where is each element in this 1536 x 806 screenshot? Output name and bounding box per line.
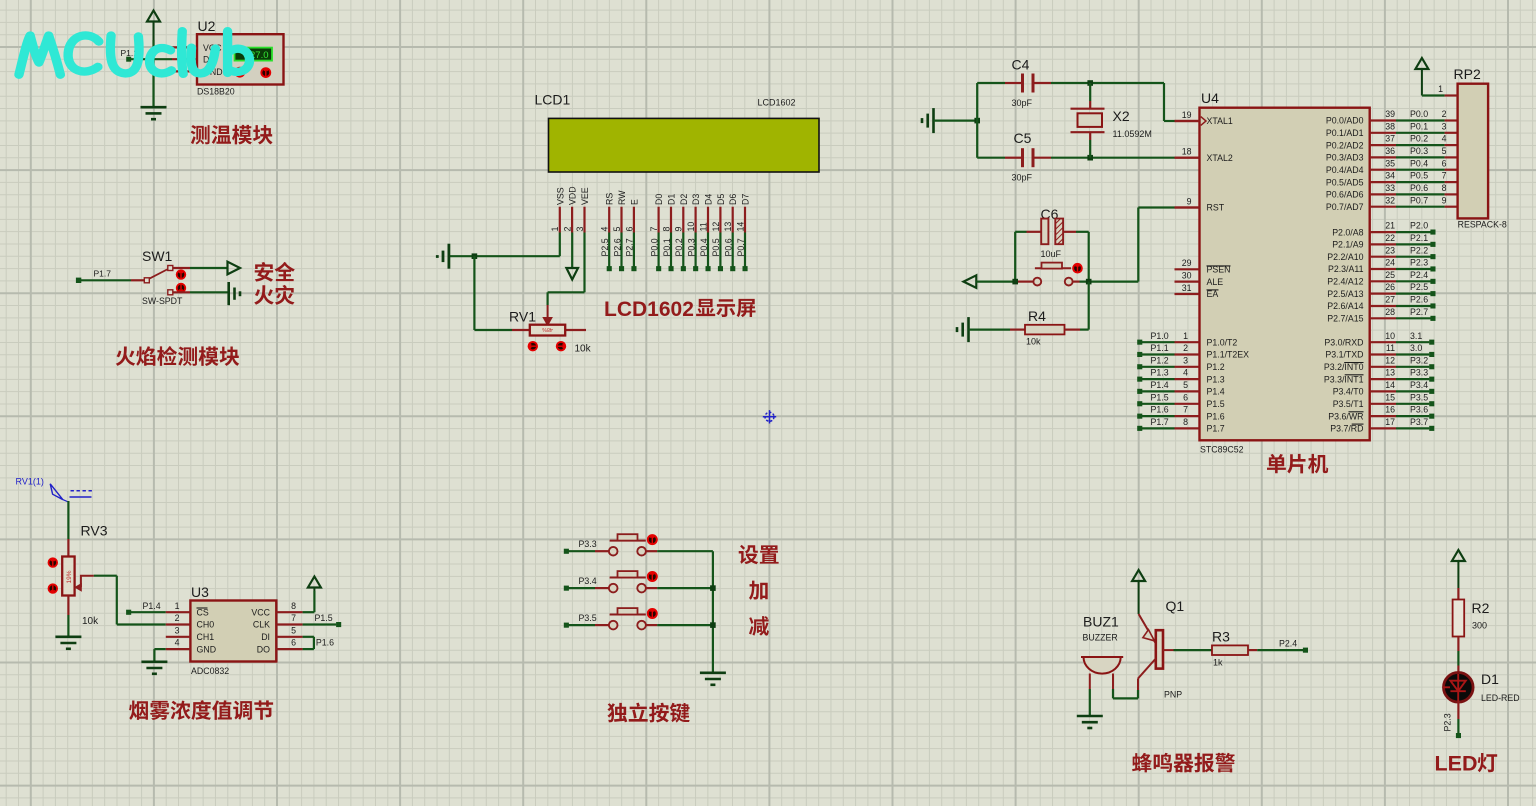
wire R4 to reset row — [1088, 282, 1090, 330]
MCUclub logo — [19, 31, 250, 74]
svg-text:ALE: ALE — [1207, 277, 1224, 287]
svg-text:RS: RS — [605, 193, 615, 205]
svg-text:P2.5: P2.5 — [1410, 282, 1428, 292]
svg-text:D4: D4 — [704, 194, 714, 205]
svg-text:P1.2: P1.2 — [1151, 355, 1169, 365]
svg-text:P0.6/AD6: P0.6/AD6 — [1326, 190, 1364, 200]
svg-text:RST: RST — [1207, 203, 1225, 213]
svg-text:P1.4: P1.4 — [1207, 387, 1225, 397]
U4 pin 2 P1.1 — [1137, 343, 1249, 360]
svg-text:21: 21 — [1385, 221, 1395, 231]
svg-text:RV1(1): RV1(1) — [16, 477, 44, 487]
svg-text:31: 31 — [1182, 283, 1192, 293]
U4 pin 3 P1.2 — [1137, 355, 1225, 372]
svg-text:2: 2 — [563, 227, 573, 232]
LCD pin 12 D5 — [711, 194, 726, 272]
svg-text:DO: DO — [257, 644, 270, 654]
svg-text:3: 3 — [1442, 121, 1447, 131]
svg-text:4: 4 — [600, 227, 610, 232]
svg-text:25: 25 — [1385, 270, 1395, 280]
svg-text:23: 23 — [1385, 245, 1395, 255]
svg-text:29: 29 — [1182, 258, 1192, 268]
junction C6-right/reset — [1086, 279, 1092, 285]
label 加 — [749, 581, 768, 600]
potentiometer RV1 10k — [509, 305, 592, 355]
svg-text:ADC0832: ADC0832 — [191, 666, 229, 676]
U4 pin 19 XTAL1 — [1175, 110, 1233, 126]
svg-text:P3.6: P3.6 — [1410, 405, 1428, 415]
svg-text:RESPACK-8: RESPACK-8 — [1458, 220, 1507, 230]
svg-text:P1.4: P1.4 — [1151, 380, 1169, 390]
svg-text:D5: D5 — [716, 194, 726, 205]
svg-text:P3.3/INT1: P3.3/INT1 — [1324, 374, 1364, 384]
svg-text:9: 9 — [674, 227, 684, 232]
svg-text:P2.5/A13: P2.5/A13 — [1327, 289, 1363, 299]
power symbol (RP2 pin1) — [1415, 58, 1428, 96]
capacitor C4 30pF — [977, 57, 1164, 109]
LCD pin 2 VDD — [563, 186, 578, 232]
U4 pin 29 PSEN — [1175, 258, 1231, 274]
svg-text:30pF: 30pF — [1012, 98, 1033, 108]
LCD pin 3 VEE — [575, 187, 590, 232]
wire keys common vertical — [712, 551, 714, 672]
svg-text:2: 2 — [1442, 109, 1447, 119]
svg-text:18: 18 — [1182, 147, 1192, 157]
svg-text:XTAL2: XTAL2 — [1207, 153, 1233, 163]
svg-text:D3: D3 — [691, 194, 701, 205]
svg-text:VEE: VEE — [580, 187, 590, 205]
svg-text:PNP: PNP — [1164, 690, 1182, 700]
svg-text:D0: D0 — [654, 194, 664, 205]
svg-text:P2.3/A11: P2.3/A11 — [1328, 264, 1364, 274]
label 设置 — [739, 545, 779, 564]
crystal X2 11.0592M — [1071, 83, 1152, 158]
svg-text:P0.5: P0.5 — [711, 238, 721, 256]
svg-text:P3.2/INT0: P3.2/INT0 — [1324, 362, 1364, 372]
svg-text:P0.7: P0.7 — [736, 238, 746, 256]
push button reset — [1033, 263, 1082, 286]
svg-text:R2: R2 — [1472, 600, 1490, 616]
svg-text:P3.7: P3.7 — [1410, 417, 1428, 427]
wire VEE to RV1 wiper — [548, 233, 585, 306]
svg-text:P1.6: P1.6 — [316, 638, 334, 648]
svg-text:6: 6 — [1183, 392, 1188, 402]
svg-text:D2: D2 — [679, 194, 689, 205]
svg-text:E: E — [629, 199, 639, 205]
ground right (火灾) — [229, 282, 240, 305]
svg-text:16: 16 — [1385, 405, 1395, 415]
svg-text:LCD1: LCD1 — [535, 92, 571, 108]
wire P3.5 to button — [566, 624, 608, 626]
svg-text:CH1: CH1 — [197, 632, 215, 642]
svg-text:3: 3 — [1183, 355, 1188, 365]
svg-text:C5: C5 — [1014, 130, 1032, 146]
svg-text:8: 8 — [1183, 417, 1188, 427]
U4 pin 39 P0.0 wire to RP2 pin 2 — [1326, 109, 1458, 126]
LCD pin 7 D0 — [649, 194, 664, 272]
svg-text:12: 12 — [711, 222, 721, 232]
svg-text:P0.3/AD3: P0.3/AD3 — [1326, 153, 1364, 163]
U4 pin 1 P1.0 — [1137, 331, 1237, 348]
svg-text:P2.6: P2.6 — [1410, 295, 1428, 305]
svg-text:P0.2/AD2: P0.2/AD2 — [1326, 140, 1364, 150]
U4 pin 13 P3.3 — [1324, 368, 1434, 385]
power symbol VCC (temp module) — [147, 11, 160, 48]
U4 pin 33 P0.6 wire to RP2 pin 8 — [1326, 183, 1458, 200]
svg-text:1: 1 — [550, 227, 560, 232]
svg-text:X2: X2 — [1113, 108, 1130, 124]
LCD pin 9 D2 — [674, 194, 689, 272]
sensor U2 DS18B20 — [197, 18, 284, 97]
svg-text:8: 8 — [1442, 183, 1447, 193]
power arrow down (VDD) — [566, 268, 578, 280]
U4 pin 32 P0.7 wire to RP2 pin 9 — [1326, 195, 1458, 212]
svg-text:10k: 10k — [82, 616, 99, 627]
svg-text:P3.5: P3.5 — [579, 613, 597, 623]
ground (buzzer) — [1077, 716, 1103, 728]
svg-text:9: 9 — [1187, 196, 1192, 206]
svg-text:RW: RW — [617, 190, 627, 205]
svg-text:P3.4/T0: P3.4/T0 — [1333, 387, 1364, 397]
svg-text:P2.1: P2.1 — [1410, 233, 1428, 243]
node P1.7 — [76, 268, 111, 283]
LCD pin 14 D7 — [735, 194, 750, 272]
svg-text:P2.4: P2.4 — [1279, 639, 1297, 649]
svg-text:P0.0/AD0: P0.0/AD0 — [1326, 116, 1364, 126]
svg-text:37: 37 — [1385, 134, 1395, 144]
svg-text:3: 3 — [175, 625, 180, 635]
U4 pin 25 P2.4 — [1327, 270, 1435, 287]
U4 pin 27 P2.6 — [1327, 295, 1435, 312]
svg-text:15: 15 — [1385, 392, 1395, 402]
label temp module — [191, 125, 273, 145]
svg-text:P1.5: P1.5 — [1151, 392, 1169, 402]
svg-text:19: 19 — [1182, 110, 1192, 120]
svg-text:P2.6: P2.6 — [612, 238, 622, 256]
svg-text:1: 1 — [1183, 331, 1188, 341]
LCD pin 13 D6 — [723, 194, 738, 272]
svg-text:LED: LED — [1435, 752, 1478, 776]
ground (temp module) — [141, 107, 167, 119]
svg-text:P0.4/AD4: P0.4/AD4 — [1326, 165, 1364, 175]
U4 pin 36 P0.3 wire to RP2 pin 5 — [1326, 146, 1458, 163]
U4 pin 31 EA — [1175, 283, 1219, 299]
svg-text:VCC: VCC — [251, 607, 270, 617]
svg-text:RV3: RV3 — [81, 523, 108, 539]
display LCD1 LCD1602 — [535, 92, 820, 173]
U4 pin 28 P2.7 — [1327, 307, 1435, 324]
svg-text:24: 24 — [1385, 258, 1395, 268]
svg-text:P1.7: P1.7 — [1207, 424, 1225, 434]
XTAL1 clock marker — [1201, 117, 1206, 126]
wire RV3 bottom to ground — [67, 596, 69, 637]
svg-text:P3.3: P3.3 — [579, 539, 597, 549]
svg-text:10: 10 — [1385, 331, 1395, 341]
svg-text:10uF: 10uF — [1041, 249, 1062, 259]
svg-text:1: 1 — [1438, 84, 1443, 94]
svg-text:RP2: RP2 — [1454, 66, 1481, 82]
wire RV3 wiper to U3 CH0 — [94, 576, 191, 625]
LCD pin 10 D3 — [686, 194, 701, 272]
resistor R3 1k — [1212, 629, 1257, 668]
svg-text:P0.7/AD7: P0.7/AD7 — [1326, 202, 1364, 212]
svg-text:P0.5/AD5: P0.5/AD5 — [1326, 177, 1364, 187]
U4 pin 22 P2.1 — [1332, 233, 1435, 250]
U3 pin 4 GND to ground — [154, 638, 216, 662]
svg-text:4: 4 — [1442, 134, 1447, 144]
LCD pin 8 D1 — [661, 194, 676, 272]
svg-text:10k: 10k — [575, 344, 592, 355]
svg-text:CH0: CH0 — [197, 620, 215, 630]
LED D1 LED-RED — [1443, 671, 1519, 703]
svg-text:P3.4: P3.4 — [579, 576, 597, 586]
svg-text:300: 300 — [1472, 621, 1487, 631]
svg-text:6: 6 — [291, 638, 296, 648]
svg-text:P2.3: P2.3 — [1410, 258, 1428, 268]
svg-text:2: 2 — [1183, 343, 1188, 353]
svg-text:P2.2/A10: P2.2/A10 — [1327, 252, 1363, 262]
junction keys P3.4 — [710, 585, 716, 591]
svg-text:13: 13 — [1385, 368, 1395, 378]
svg-text:P0.1: P0.1 — [662, 238, 672, 256]
resistor R2 300 — [1453, 600, 1490, 637]
svg-text:BUZ1: BUZ1 — [1083, 614, 1119, 630]
svg-text:11.0592M: 11.0592M — [1113, 129, 1152, 139]
power symbol (LED) — [1452, 550, 1465, 588]
svg-text:12: 12 — [1385, 355, 1395, 365]
ground (crystal) — [922, 108, 977, 133]
svg-text:P0.6: P0.6 — [1410, 183, 1428, 193]
svg-text:XTAL1: XTAL1 — [1207, 116, 1233, 126]
node P2.4 — [1279, 639, 1308, 653]
svg-text:33: 33 — [1385, 183, 1395, 193]
svg-text:P3.4: P3.4 — [1410, 380, 1428, 390]
svg-text:3.1: 3.1 — [1410, 331, 1422, 341]
label flame module — [116, 346, 239, 366]
svg-text:19%: 19% — [66, 570, 73, 583]
svg-text:P0.7: P0.7 — [1410, 195, 1428, 205]
svg-text:CLK: CLK — [253, 620, 270, 630]
LCD pin 5 RW — [612, 190, 627, 271]
svg-text:5: 5 — [291, 625, 296, 635]
svg-text:D6: D6 — [728, 194, 738, 205]
svg-text:P0.4: P0.4 — [1410, 158, 1428, 168]
label LED — [1435, 752, 1478, 776]
svg-text:48%: 48% — [542, 326, 553, 332]
svg-text:7: 7 — [649, 227, 659, 232]
power arrow right (安全) — [228, 262, 241, 275]
svg-text:P0.2: P0.2 — [1410, 134, 1428, 144]
U4 pin 37 P0.2 wire to RP2 pin 4 — [1326, 134, 1458, 151]
wire left rail C4-C5 — [976, 83, 978, 158]
label 火灾 — [254, 285, 294, 305]
svg-text:P2.4/A12: P2.4/A12 — [1327, 277, 1363, 287]
svg-text:P1.1: P1.1 — [1151, 343, 1169, 353]
svg-text:P0.6: P0.6 — [724, 238, 734, 256]
wire R2 to D1 — [1457, 637, 1459, 672]
svg-text:U3: U3 — [191, 584, 209, 600]
wire SW1 throw2 to ground — [173, 291, 228, 293]
svg-text:3: 3 — [575, 227, 585, 232]
svg-text:R3: R3 — [1212, 629, 1230, 645]
svg-text:38: 38 — [1385, 121, 1395, 131]
svg-text:8: 8 — [661, 227, 671, 232]
wire button P3.5 to common — [646, 624, 713, 626]
capacitor C6 10uF — [1015, 206, 1088, 259]
svg-text:35: 35 — [1385, 158, 1395, 168]
U3 pin 7 CLK to P1.5 — [253, 613, 341, 630]
wire RV1(1) to RV3 — [67, 501, 69, 557]
U4 pin 38 P0.1 wire to RP2 pin 3 — [1326, 121, 1458, 138]
U4 pin 21 P2.0 — [1332, 221, 1435, 238]
svg-text:7: 7 — [1183, 405, 1188, 415]
svg-text:DI: DI — [261, 632, 270, 642]
U3 pin 6 DO joined to DI -> P1.6 — [257, 637, 334, 655]
svg-text:22: 22 — [1385, 233, 1395, 243]
svg-text:39: 39 — [1385, 109, 1395, 119]
junction C5/X2 — [1087, 155, 1093, 161]
svg-text:4: 4 — [175, 638, 180, 648]
svg-text:7: 7 — [1442, 171, 1447, 181]
svg-text:P3.5/T1: P3.5/T1 — [1333, 399, 1364, 409]
wire buzzer to collector — [1113, 689, 1138, 698]
svg-text:P2.0/A8: P2.0/A8 — [1332, 227, 1363, 237]
U4 pin 7 P1.6 — [1137, 405, 1225, 422]
svg-text:P2.6/A14: P2.6/A14 — [1327, 301, 1363, 311]
junction keys P3.5 — [710, 622, 716, 628]
svg-text:28: 28 — [1385, 307, 1395, 317]
svg-text:P0.3: P0.3 — [1410, 146, 1428, 156]
svg-text:P1.6: P1.6 — [1207, 411, 1225, 421]
wire RP2 pin 1 — [1422, 84, 1458, 96]
svg-text:LCD1602: LCD1602 — [758, 98, 796, 108]
svg-text:P2.5: P2.5 — [600, 238, 610, 256]
svg-text:10: 10 — [686, 222, 696, 232]
U4 pin 5 P1.4 — [1137, 380, 1225, 397]
svg-text:D7: D7 — [741, 194, 751, 205]
svg-text:P2.3: P2.3 — [1443, 713, 1453, 731]
svg-text:1: 1 — [175, 601, 180, 611]
U4 pin 34 P0.5 wire to RP2 pin 7 — [1326, 171, 1458, 188]
svg-text:30pF: 30pF — [1012, 173, 1033, 183]
svg-text:LED-RED: LED-RED — [1481, 693, 1520, 703]
U3 pin 2 CH0 — [175, 613, 215, 630]
svg-text:P1.7: P1.7 — [1151, 417, 1169, 427]
svg-text:P2.1/A9: P2.1/A9 — [1332, 240, 1363, 250]
svg-text:P2.7/A15: P2.7/A15 — [1327, 314, 1363, 324]
svg-text:RV1: RV1 — [509, 309, 536, 325]
wire reset row right to RST — [1073, 208, 1200, 282]
ADC U3 ADC0832 body — [190, 584, 276, 676]
junction C4/X2 — [1087, 80, 1093, 86]
wire C6 right down to reset row — [1088, 232, 1090, 282]
svg-text:P0.0: P0.0 — [649, 238, 659, 256]
ground (U3) — [141, 662, 167, 674]
label LCD1602 display — [604, 298, 694, 321]
wire R3 to P2.4 — [1257, 649, 1303, 651]
ground (R4) — [957, 317, 1010, 342]
svg-text:30: 30 — [1182, 270, 1192, 280]
svg-text:P2.0: P2.0 — [1410, 221, 1428, 231]
svg-text:P3.0/RXD: P3.0/RXD — [1324, 337, 1363, 347]
U4 pin 11 P3.1 — [1325, 343, 1434, 360]
svg-text:P0.5: P0.5 — [1410, 171, 1428, 181]
svg-text:5: 5 — [1442, 146, 1447, 156]
node P3.5 — [564, 613, 597, 628]
MCU U4 STC89C52 body — [1200, 90, 1370, 455]
svg-text:5: 5 — [1183, 380, 1188, 390]
LCD pin 1 VSS — [550, 187, 565, 232]
svg-text:STC89C52: STC89C52 — [1200, 445, 1244, 455]
switch SW1 SPDT — [142, 266, 186, 306]
ground (LCD VSS) — [437, 244, 449, 269]
origin marker — [763, 410, 776, 423]
svg-text:9: 9 — [1442, 195, 1447, 205]
svg-text:VDD: VDD — [568, 186, 578, 205]
power symbol (buzzer) — [1132, 570, 1145, 614]
svg-text:32: 32 — [1385, 195, 1395, 205]
potentiometer RV3 10k — [48, 523, 108, 628]
U4 pin 24 P2.3 — [1328, 258, 1436, 275]
label MCU — [1267, 454, 1328, 474]
svg-text:P2.7: P2.7 — [625, 238, 635, 256]
svg-text:BUZZER: BUZZER — [1083, 633, 1118, 643]
svg-text:D1: D1 — [1481, 671, 1499, 687]
LCD pin 6 E — [624, 199, 639, 271]
svg-text:11: 11 — [698, 222, 708, 231]
label smoke module — [129, 700, 273, 720]
U3 pin 8 VCC to power — [251, 591, 314, 617]
svg-text:P3.1/TXD: P3.1/TXD — [1325, 350, 1363, 360]
svg-text:3.0: 3.0 — [1410, 343, 1422, 353]
wire button P3.3 to common — [646, 550, 713, 552]
svg-text:P0.0: P0.0 — [1410, 109, 1428, 119]
svg-text:P3.2: P3.2 — [1410, 355, 1428, 365]
wire DQ from P1.1 to U2 — [129, 58, 197, 60]
U4 pin 18 XTAL2 — [1175, 147, 1233, 163]
wire base to R3 — [1174, 649, 1213, 651]
svg-text:6: 6 — [624, 227, 634, 232]
push button P3.3 — [609, 534, 658, 555]
svg-text:P2.4: P2.4 — [1410, 270, 1428, 280]
wire SW1 throw1 to power — [173, 267, 227, 269]
wire GND stub — [154, 70, 198, 72]
svg-text:VSS: VSS — [555, 187, 565, 205]
svg-text:13: 13 — [723, 222, 733, 232]
label 安全 — [255, 262, 295, 282]
svg-text:P0.1: P0.1 — [1410, 121, 1428, 131]
LCD pin 4 RS — [600, 193, 615, 272]
wire power to R2 — [1457, 588, 1459, 600]
svg-text:EA: EA — [1207, 289, 1219, 299]
buzzer BUZ1 — [1081, 614, 1123, 690]
wire reset row left — [976, 281, 1017, 283]
label keys module — [607, 703, 689, 723]
wire XTAL1 — [1164, 83, 1200, 121]
node RV1(1) probe — [16, 477, 93, 503]
power symbol (U3 VCC) — [308, 577, 321, 592]
svg-text:6: 6 — [1442, 158, 1447, 168]
svg-text:P0.4: P0.4 — [699, 238, 709, 256]
svg-text:P0.3: P0.3 — [686, 238, 696, 256]
push button P3.5 — [609, 608, 658, 629]
svg-text:SW1: SW1 — [142, 248, 173, 264]
wire P1.7 to SW1 pole — [79, 279, 144, 281]
U4 pin 35 P0.4 wire to RP2 pin 6 — [1326, 158, 1458, 175]
svg-text:P1.4: P1.4 — [143, 601, 161, 611]
svg-text:P3.7/RD: P3.7/RD — [1330, 424, 1363, 434]
svg-text:P1.7: P1.7 — [94, 268, 112, 278]
